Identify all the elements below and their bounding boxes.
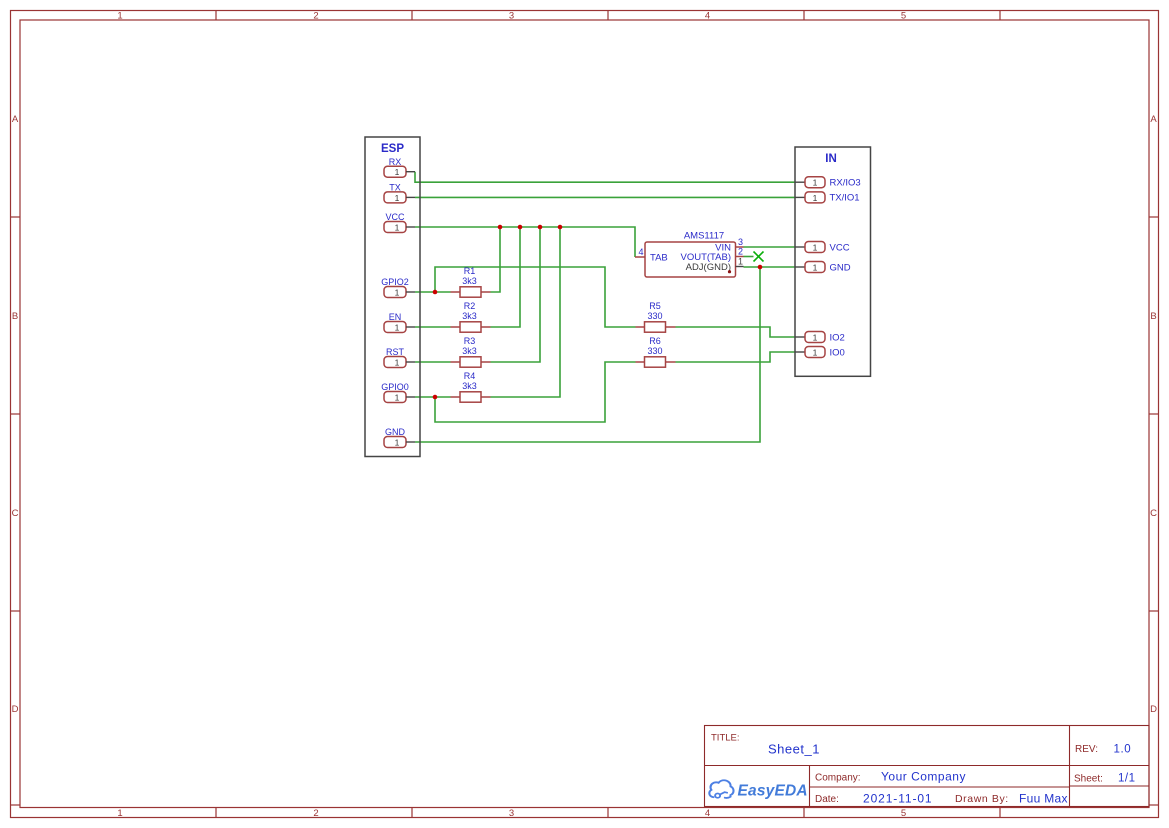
wire RX net (ESP.RX to IN.RX/IO3) xyxy=(415,172,795,183)
svg-text:4: 4 xyxy=(705,808,710,819)
svg-text:2: 2 xyxy=(313,808,318,819)
svg-text:2: 2 xyxy=(313,11,318,22)
svg-text:5: 5 xyxy=(901,11,906,22)
svg-text:IO0: IO0 xyxy=(830,347,845,358)
svg-text:Sheet_1: Sheet_1 xyxy=(768,742,820,757)
svg-text:R4: R4 xyxy=(464,371,476,381)
resistor R2 xyxy=(451,301,491,332)
resistor R1 xyxy=(451,266,491,297)
svg-text:AMS1117: AMS1117 xyxy=(684,231,724,242)
svg-text:C: C xyxy=(12,508,19,519)
svg-text:2: 2 xyxy=(738,247,743,257)
resistor R4 xyxy=(451,371,491,402)
wire GPIO0 net to R6 xyxy=(435,362,636,422)
svg-text:B: B xyxy=(1150,311,1156,322)
junction VCC rail node 3 xyxy=(538,225,543,230)
origin dot xyxy=(728,270,731,273)
svg-text:RST: RST xyxy=(386,347,405,357)
wire R5 right to IN.IO2 xyxy=(676,327,796,337)
svg-text:R5: R5 xyxy=(649,301,661,311)
wire VCC tap to R3 xyxy=(491,227,541,362)
svg-text:330: 330 xyxy=(647,311,662,321)
svg-text:1: 1 xyxy=(395,288,400,298)
pin TX (ESP 1) xyxy=(384,183,415,203)
svg-text:GPIO2: GPIO2 xyxy=(381,277,409,287)
svg-text:1: 1 xyxy=(813,193,818,203)
wire GPIO0 pin to R4 left xyxy=(415,396,451,398)
svg-text:1: 1 xyxy=(813,243,818,253)
junction GND node xyxy=(758,265,763,270)
svg-text:1: 1 xyxy=(395,167,400,177)
svg-text:1: 1 xyxy=(117,808,122,819)
svg-text:1/1: 1/1 xyxy=(1118,773,1136,785)
svg-text:ESP: ESP xyxy=(381,143,404,155)
svg-text:3k3: 3k3 xyxy=(462,346,477,356)
svg-text:IN: IN xyxy=(825,153,837,165)
pin RX/IO3 (IN 1) xyxy=(795,177,861,189)
wire GPIO2 pin to R1 left xyxy=(415,291,451,293)
EasyEDA logo xyxy=(709,780,733,798)
svg-text:EN: EN xyxy=(389,312,402,322)
svg-text:GND: GND xyxy=(830,262,851,273)
junction VCC rail node 4 xyxy=(558,225,563,230)
pin 3 VIN stub xyxy=(736,246,744,248)
svg-text:Drawn By:: Drawn By: xyxy=(955,793,1009,805)
svg-text:A: A xyxy=(1150,114,1157,125)
wire GPIO2 net to R5 xyxy=(435,267,636,327)
wire EN pin to R2 left xyxy=(415,326,451,328)
pin 2 VOUT stub xyxy=(736,256,744,258)
svg-text:RX/IO3: RX/IO3 xyxy=(830,178,861,189)
wire VCC rail (ESP.VCC to AMS1117 pin4) xyxy=(415,227,635,257)
wire VCC tap to R1 xyxy=(491,227,501,292)
resistor R3 xyxy=(451,336,491,367)
svg-text:GPIO0: GPIO0 xyxy=(381,382,409,392)
svg-text:R3: R3 xyxy=(464,336,476,346)
pin RX (ESP 1) xyxy=(384,157,415,177)
svg-text:3: 3 xyxy=(509,11,514,22)
svg-text:EasyEDA: EasyEDA xyxy=(738,783,808,800)
svg-text:IO2: IO2 xyxy=(830,332,845,343)
svg-text:1: 1 xyxy=(395,193,400,203)
connector IN xyxy=(795,147,871,376)
svg-text:B: B xyxy=(12,311,18,322)
svg-text:R2: R2 xyxy=(464,301,476,311)
svg-text:1: 1 xyxy=(813,263,818,273)
svg-text:Company:: Company: xyxy=(815,773,861,784)
svg-text:Sheet:: Sheet: xyxy=(1074,774,1103,785)
no-connect X on VOUT xyxy=(754,252,764,262)
connector ESP xyxy=(365,137,420,457)
svg-text:5: 5 xyxy=(901,808,906,819)
svg-text:3: 3 xyxy=(509,808,514,819)
pin TX/IO1 (IN 1) xyxy=(795,192,860,204)
svg-text:3k3: 3k3 xyxy=(462,381,477,391)
junction VCC rail node 1 xyxy=(498,225,503,230)
svg-text:VCC: VCC xyxy=(385,212,405,222)
pin EN (ESP 1) xyxy=(384,312,415,333)
svg-text:Date:: Date: xyxy=(815,794,839,805)
svg-text:Your Company: Your Company xyxy=(881,770,966,784)
wire RST pin to R3 left xyxy=(415,361,451,363)
wire R6 right to IN.IO0 xyxy=(676,352,796,362)
svg-text:1: 1 xyxy=(395,438,400,448)
pin GND (ESP 1) xyxy=(384,427,415,448)
pin GPIO0 (ESP 1) xyxy=(381,382,415,403)
svg-text:R6: R6 xyxy=(649,336,661,346)
pin GND (IN 1) xyxy=(795,262,851,274)
svg-text:3k3: 3k3 xyxy=(462,276,477,286)
svg-text:1: 1 xyxy=(738,257,743,267)
wire GND vertical to ESP.GND xyxy=(415,267,760,442)
svg-text:1: 1 xyxy=(813,178,818,188)
svg-text:4: 4 xyxy=(638,247,643,257)
svg-text:1: 1 xyxy=(395,223,400,233)
svg-text:D: D xyxy=(12,704,19,715)
svg-text:ADJ(GND): ADJ(GND) xyxy=(686,262,731,273)
junction GPIO2 node xyxy=(433,290,438,295)
svg-text:1: 1 xyxy=(117,11,122,22)
wire AMS1117 VIN to IN.VCC xyxy=(744,246,796,248)
wire VCC tap to R4 xyxy=(491,227,561,397)
junction VCC rail node 2 xyxy=(518,225,523,230)
svg-text:VCC: VCC xyxy=(830,242,850,253)
svg-text:1.0: 1.0 xyxy=(1114,744,1132,756)
svg-text:GND: GND xyxy=(385,427,406,437)
svg-text:1: 1 xyxy=(813,348,818,358)
pin IO2 (IN 1) xyxy=(795,332,845,344)
svg-text:D: D xyxy=(1150,704,1157,715)
pin GPIO2 (ESP 1) xyxy=(381,277,415,298)
svg-text:3k3: 3k3 xyxy=(462,311,477,321)
resistor R5 xyxy=(636,301,676,332)
svg-text:2021-11-01: 2021-11-01 xyxy=(863,792,933,806)
svg-text:4: 4 xyxy=(705,11,710,22)
resistor R6 xyxy=(636,336,676,367)
svg-text:3: 3 xyxy=(738,237,743,247)
svg-text:1: 1 xyxy=(395,393,400,403)
svg-text:TITLE:: TITLE: xyxy=(711,733,740,744)
svg-text:REV:: REV: xyxy=(1075,744,1098,755)
regulator U AMS1117 xyxy=(635,231,744,278)
wire VCC tap to R2 xyxy=(491,227,521,327)
svg-text:TX: TX xyxy=(389,183,401,193)
svg-text:1: 1 xyxy=(813,333,818,343)
pin VCC (ESP 1) xyxy=(384,212,415,233)
svg-text:C: C xyxy=(1150,508,1157,519)
svg-text:TAB: TAB xyxy=(650,252,668,263)
svg-text:Fuu Max: Fuu Max xyxy=(1019,792,1068,806)
svg-text:330: 330 xyxy=(647,346,662,356)
wire AMS1117 VOUT stub to no-connect xyxy=(744,256,754,258)
svg-text:A: A xyxy=(12,114,19,125)
pin 1 ADJ stub xyxy=(736,266,744,268)
pin VCC (IN 1) xyxy=(795,242,850,254)
svg-text:1: 1 xyxy=(395,323,400,333)
svg-text:1: 1 xyxy=(395,358,400,368)
pin RST (ESP 1) xyxy=(384,347,415,368)
svg-text:TX/IO1: TX/IO1 xyxy=(830,193,860,204)
wire GND net (AMS1117 ADJ to IN.GND and ESP.GND) xyxy=(744,266,796,268)
svg-text:R1: R1 xyxy=(464,266,476,276)
pin IO0 (IN 1) xyxy=(795,347,845,359)
wire TX net (ESP.TX to IN.TX/IO1) xyxy=(415,196,795,198)
junction GPIO0 node xyxy=(433,395,438,400)
pin 4 TAB stub xyxy=(635,256,645,258)
